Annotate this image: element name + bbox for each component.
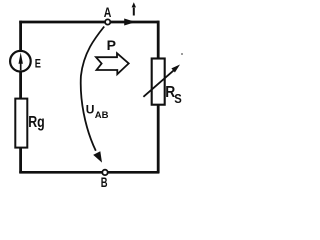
svg-text:AB: AB <box>95 110 109 121</box>
svg-text:Rg: Rg <box>28 114 45 131</box>
source E internal arrow <box>20 62 22 70</box>
wire top horizontal A to corners <box>19 21 159 24</box>
svg-text:E: E <box>35 57 41 71</box>
svg-text:U: U <box>86 102 95 116</box>
wire right vertical upper segment <box>157 21 160 59</box>
power P block arrow <box>96 53 129 74</box>
wire left vertical middle segment <box>19 72 22 99</box>
wire right vertical lower segment <box>157 105 160 174</box>
speck near RS <box>181 53 183 55</box>
source E <box>10 51 31 72</box>
voltage UAB curved arrow <box>81 27 104 151</box>
svg-text:P: P <box>107 37 116 53</box>
wire left vertical lower segment <box>19 149 22 174</box>
wire left vertical upper segment <box>19 21 22 51</box>
svg-text:B: B <box>101 175 108 190</box>
RS variable arrow <box>143 70 174 97</box>
resistor RS <box>152 59 165 105</box>
current I arrow (vertical up) <box>133 8 135 16</box>
svg-text:A: A <box>104 5 112 20</box>
current arrowhead on top wire <box>124 19 136 26</box>
node A <box>105 19 110 24</box>
svg-text:S: S <box>174 92 182 106</box>
wire bottom horizontal <box>19 171 159 174</box>
resistor Rg <box>15 99 27 148</box>
node B <box>102 170 107 175</box>
